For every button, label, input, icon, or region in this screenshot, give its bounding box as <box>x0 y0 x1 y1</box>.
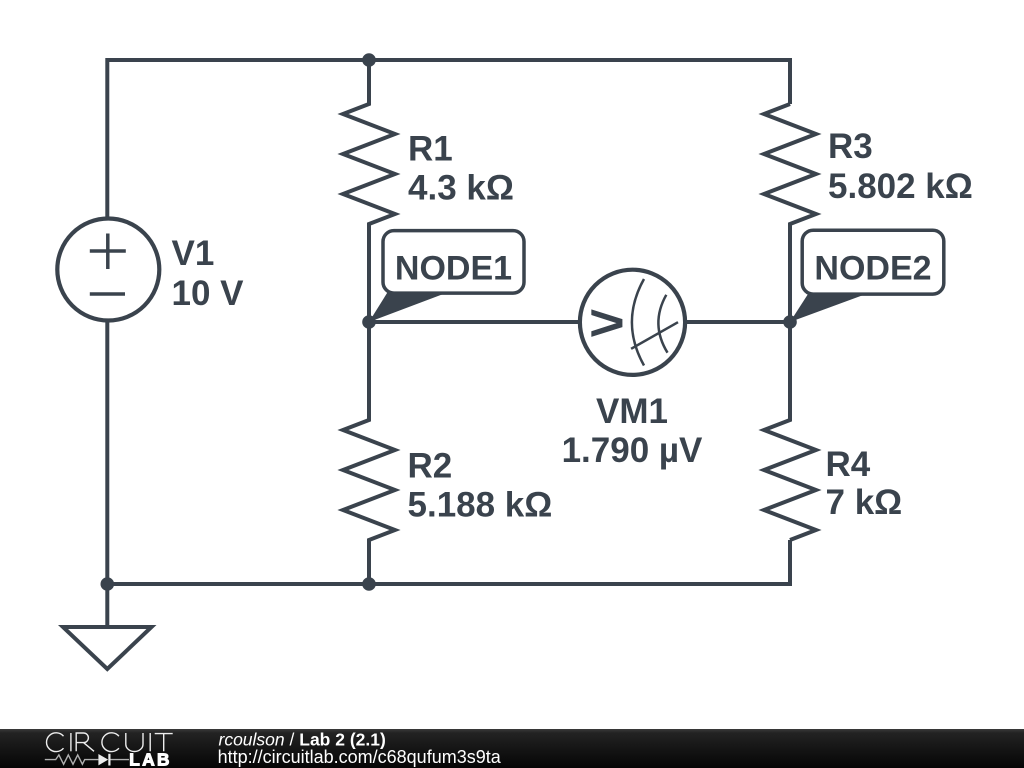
V1 plus sign <box>90 234 126 270</box>
CircuitLab logo CIRCUIT letters <box>47 733 173 752</box>
svg-text:R2: R2 <box>408 447 453 486</box>
label VM1 value <box>562 392 703 470</box>
svg-text:10 V: 10 V <box>172 274 245 313</box>
svg-text:NODE2: NODE2 <box>814 250 931 288</box>
VM1 meter scale arc left <box>632 279 644 366</box>
junction dot ground <box>101 577 115 591</box>
resistor R4 body and leads <box>764 322 816 540</box>
wire outer loop: top rail, left rail, bottom rail, R4 bottom lead <box>107 60 790 584</box>
junction dot bottom rail <box>362 577 376 591</box>
VM1 meter needle <box>631 322 678 349</box>
ground stem wire <box>105 584 109 627</box>
junction dot top rail <box>362 53 376 67</box>
svg-text:1.790 µV: 1.790 µV <box>562 431 703 470</box>
label R2 value <box>408 447 553 525</box>
junction dot node1 <box>362 315 376 329</box>
label R4 value <box>826 445 903 522</box>
label R3 value <box>828 127 973 206</box>
svg-text:5.802 kΩ: 5.802 kΩ <box>828 167 973 206</box>
label R1 value <box>408 129 514 207</box>
ground symbol triangle <box>63 627 152 669</box>
svg-text:>: > <box>589 295 625 352</box>
wire middle rail NODE1 to NODE2 <box>369 320 790 324</box>
svg-text:7 kΩ: 7 kΩ <box>826 483 903 522</box>
svg-text:4.3 kΩ: 4.3 kΩ <box>408 168 514 207</box>
label V1 value <box>172 234 245 313</box>
node NODE1 flag box <box>369 231 524 322</box>
V1 minus sign <box>90 292 125 296</box>
voltage source V1 circle <box>57 219 159 321</box>
CircuitLab logo resistor-diode glyph <box>45 755 129 764</box>
svg-text:R4: R4 <box>826 445 871 484</box>
svg-text:5.188 kΩ: 5.188 kΩ <box>408 486 553 525</box>
VM1 meter scale arc right <box>658 295 667 353</box>
svg-text:VM1: VM1 <box>596 392 668 431</box>
svg-text:NODE1: NODE1 <box>395 250 512 288</box>
footer bar <box>0 729 1024 768</box>
voltmeter VM1 circle <box>580 270 685 375</box>
resistor R1 body and leads <box>343 60 395 322</box>
svg-text:http://circuitlab.com/c68qufum: http://circuitlab.com/c68qufum3s9ta <box>218 747 502 767</box>
resistor R2 body and leads <box>343 322 395 584</box>
node NODE2 flag box <box>790 230 944 322</box>
svg-text:R1: R1 <box>408 129 453 168</box>
resistor R3 body and leads <box>764 104 816 322</box>
svg-text:LAB: LAB <box>129 749 172 768</box>
svg-text:R3: R3 <box>828 127 873 166</box>
svg-text:V1: V1 <box>172 234 215 273</box>
junction dot node2 <box>783 315 797 329</box>
